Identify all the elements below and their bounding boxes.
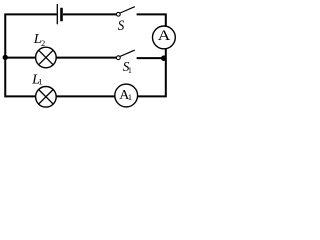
battery cell: short thick plate — [60, 8, 63, 22]
ammeter A — [153, 26, 176, 49]
wire middle branch left (node to switch S1, through lamp L2) — [5, 57, 116, 59]
switch S1 lever — [120, 50, 135, 56]
switch S pivot — [116, 12, 120, 16]
wire middle branch right (switch S1 to right node) — [137, 57, 164, 59]
ammeter A1 — [115, 84, 138, 107]
switch S1 pivot — [116, 56, 120, 60]
lamp L1 — [36, 87, 57, 108]
switch S lever — [120, 7, 135, 13]
svg-text:A: A — [158, 28, 171, 44]
wire top middle segment (battery to switch S) — [63, 13, 116, 15]
svg-text:2: 2 — [41, 38, 45, 48]
svg-text:1: 1 — [128, 66, 132, 75]
svg-text:1: 1 — [38, 76, 42, 86]
wire main loop: left rail, top wire to battery, bottom wire, right rail — [5, 14, 166, 96]
svg-text:S: S — [118, 18, 125, 34]
battery cell: long thin plate — [56, 4, 58, 24]
lamp L2 — [36, 47, 57, 68]
svg-text:1: 1 — [128, 92, 132, 102]
junction node right — [161, 55, 167, 61]
junction node left — [3, 55, 8, 60]
